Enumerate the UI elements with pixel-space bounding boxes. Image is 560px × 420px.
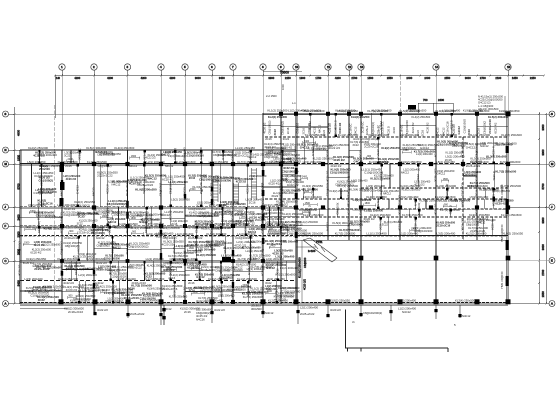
svg-text:2C16: 2C16 [265,137,272,141]
svg-text:L1(2) 200x400: L1(2) 200x400 [267,232,285,236]
svg-text:KL3(4) 250x500: KL3(4) 250x500 [102,210,122,214]
svg-text:6C20 4/2: 6C20 4/2 [495,202,506,206]
svg-text:4C20 2/2: 4C20 2/2 [182,286,186,298]
svg-text:C8@100: C8@100 [303,257,307,268]
svg-text:KL7(3) 250x500: KL7(3) 250x500 [367,109,388,113]
svg-text:KL2(2) 250x600: KL2(2) 250x600 [42,243,61,246]
svg-text:C8@100/2: C8@100/2 [260,241,264,255]
svg-text:KL5(2) 300x600: KL5(2) 300x600 [304,109,325,113]
svg-text:C10@100/200: C10@100/200 [34,174,53,178]
svg-text:2C25+2C22: 2C25+2C22 [235,222,250,226]
svg-text:L5(2) 200x450: L5(2) 200x450 [470,195,489,199]
svg-text:2C25+2C22: 2C25+2C22 [130,312,145,316]
svg-text:C10@10: C10@10 [296,122,300,133]
svg-text:LL1(1) 250x450: LL1(1) 250x450 [209,160,229,164]
svg-text:KL3(4) 250x500: KL3(4) 250x500 [469,109,490,113]
svg-text:6C20 4/2: 6C20 4/2 [30,250,42,254]
svg-text:C8@100(2): C8@100(2) [268,121,272,135]
svg-text:6C20 4/2: 6C20 4/2 [364,217,375,221]
svg-text:2400: 2400 [304,140,310,143]
shear wall segments axis 10 [222,168,297,262]
axis bubble 4 (top) [158,64,164,76]
right dimension line [538,112,540,305]
beam vertical x=297.5 [297,113,299,304]
svg-text:C10@100/: C10@100/ [182,147,186,161]
bottom text block mid [162,304,262,326]
svg-text:3C22: 3C22 [273,129,277,136]
bottom chord gray core [20,303,508,305]
svg-text:2C16: 2C16 [168,276,175,280]
svg-text:2C16: 2C16 [249,200,256,204]
svg-text:6C20 4/2: 6C20 4/2 [214,214,225,217]
svg-text:KL5(2) 300x600: KL5(2) 300x600 [467,184,488,188]
svg-text:2C16: 2C16 [421,129,425,136]
beam vertical x=233 [232,150,234,304]
svg-text:2C18+2C16: 2C18+2C16 [131,281,146,285]
axis bubble 6 (top) [209,64,215,76]
axis bubble 15 (top) [505,64,511,76]
svg-text:N4C12: N4C12 [401,170,410,174]
svg-text:2550: 2550 [444,76,450,80]
svg-text:2C16: 2C16 [171,222,178,226]
grid line level y=236 [20,235,508,237]
beam vertical x=20 [19,150,21,304]
svg-text:3C22: 3C22 [382,223,389,227]
beam horizontal y=260.8 [20,260,296,262]
svg-text:300x500: 300x500 [251,307,262,311]
svg-text:KL1(2) 250x500: KL1(2) 250x500 [470,133,491,137]
svg-text:C8@100/2: C8@100/2 [346,168,350,182]
svg-text:KL7(3) 250x500: KL7(3) 250x500 [500,184,521,188]
svg-text:4C20 2/2: 4C20 2/2 [353,137,364,141]
svg-text:5700: 5700 [541,183,545,189]
beam vertical x=463 [462,137,464,240]
svg-text:N4C12: N4C12 [462,314,471,318]
svg-text:3C22: 3C22 [38,298,45,302]
svg-text:L2(1) 200x400: L2(1) 200x400 [38,153,57,157]
svg-text:L3(3) 200x400: L3(3) 200x400 [303,195,322,199]
svg-text:KL7(3) 250x500: KL7(3) 250x500 [335,232,356,236]
svg-text:L3(3) 200x400: L3(3) 200x400 [362,188,381,192]
svg-text:3300: 3300 [541,149,545,155]
svg-text:2C18+2C: 2C18+2C [361,122,365,133]
svg-text:KL1(2) 250x500: KL1(2) 250x500 [237,277,257,281]
svg-text:KL2(2) 250x600: KL2(2) 250x600 [370,213,391,217]
beam horizontal y=280.5 [20,280,296,282]
grid line axis-296 vertical [295,76,297,305]
svg-text:KL5(2) 300x600: KL5(2) 300x600 [227,288,246,292]
svg-text:LL1(1) 250x450: LL1(1) 250x450 [366,232,387,236]
svg-text:3300: 3300 [267,290,273,293]
stair flight 1 [213,180,218,202]
annotation clusters right block [260,115,517,235]
svg-text:C8@100/200(2): C8@100/200(2) [276,295,294,298]
svg-text:2550: 2550 [387,76,393,80]
svg-text:1650: 1650 [512,76,518,80]
svg-text:4C20 2/2: 4C20 2/2 [263,122,267,133]
svg-text:2C25+2C2: 2C25+2C2 [474,168,478,182]
beam vertical x=281 [280,113,282,304]
svg-text:2-2 1500: 2-2 1500 [266,94,277,98]
bottom long labels [64,306,416,314]
grid line extra x=400 [399,76,401,241]
grid line axis-212 vertical [211,76,213,305]
svg-text:KL9(2) 250x550: KL9(2) 250x550 [135,188,157,192]
svg-text:KL9(2) 250x550: KL9(2) 250x550 [208,277,228,281]
svg-text:L2(1) 200x400: L2(1) 200x400 [57,203,75,207]
beam horizontal y=262.2 [20,261,296,263]
svg-text:900: 900 [68,295,73,298]
svg-text:2C25+2C22: 2C25+2C22 [137,183,153,187]
svg-text:KL1(2) 250x500: KL1(2) 250x500 [435,195,456,199]
svg-text:N: N [4,148,6,152]
bottom edge secondary line [20,307,68,309]
beam vertical x=361 [360,113,362,304]
svg-text:4C22 2/2: 4C22 2/2 [411,122,415,133]
svg-text:2C18+2C1: 2C18+2C1 [460,217,464,231]
svg-text:2400: 2400 [102,151,108,154]
svg-text:4C20 2/2: 4C20 2/2 [330,308,341,312]
svg-text:PTB1: PTB1 [316,240,323,244]
svg-text:900: 900 [167,267,172,270]
svg-text:2C18+2C16: 2C18+2C16 [124,296,140,300]
top-right note block [478,95,505,114]
svg-text:2C18+2C1: 2C18+2C1 [460,143,464,157]
annotation clusters left block [17,147,303,303]
svg-text:C8@100/2: C8@100/2 [260,217,264,231]
svg-text:700: 700 [423,98,428,102]
svg-text:2C25+2C2: 2C25+2C2 [460,182,464,196]
svg-text:C8@100/2: C8@100/2 [59,241,63,255]
svg-text:2C25+2C22: 2C25+2C22 [128,267,142,270]
wall segments on left block verticals [61,180,234,288]
svg-text:E: E [551,259,553,263]
svg-text:4C22 2/2: 4C22 2/2 [97,308,108,312]
svg-text:KL9(2) 250x550: KL9(2) 250x550 [337,109,358,113]
svg-text:L5(2) 200x450: L5(2) 200x450 [400,195,419,199]
svg-text:2700: 2700 [480,76,486,80]
svg-text:2C16: 2C16 [188,281,195,285]
grid line level y=209 [296,208,508,210]
svg-text:C10@100/200: C10@100/200 [140,297,157,300]
svg-text:3300: 3300 [242,284,248,287]
svg-text:C10@100/200: C10@100/200 [188,207,206,211]
svg-text:KL4(2) 250x500: KL4(2) 250x500 [265,160,285,164]
svg-text:KL4(2) 250x500: KL4(2) 250x500 [118,222,138,226]
stair flight 3 [252,168,257,200]
svg-text:3C22: 3C22 [352,143,359,147]
axis bubble A (right) [508,301,555,307]
svg-text:4C22 2/2: 4C22 2/2 [328,123,332,134]
svg-text:G4C12: G4C12 [346,187,350,196]
svg-text:N4C12: N4C12 [265,311,274,315]
svg-text:KL3(4) 250x500: KL3(4) 250x500 [400,184,421,188]
beam vertical x=127.5 [127,150,129,304]
svg-text:KL9(2) 250x550: KL9(2) 250x550 [330,299,350,303]
columns (filled squares) [59,111,511,304]
svg-text:2250: 2250 [530,76,536,80]
svg-text:G4C12: G4C12 [213,207,222,211]
axis bubble 8 (top) [260,64,266,76]
svg-text:2C25+2C22: 2C25+2C22 [300,312,315,316]
svg-text:N4C12: N4C12 [477,222,485,225]
beam horizontal y=150 [20,149,296,151]
axis bubble J (right) [508,204,555,210]
svg-text:L3(3) 200x400: L3(3) 200x400 [25,277,43,281]
grid line axis-436 vertical [435,76,437,305]
grid line axis-328 vertical [327,76,329,241]
axis bubble 9 (top) [278,64,284,76]
svg-text:L3(3) 200x400: L3(3) 200x400 [437,232,456,236]
secondary beams left block [20,150,296,304]
svg-text:L2(1) 200x400: L2(1) 200x400 [177,257,195,261]
svg-text:3000: 3000 [541,124,545,130]
svg-text:KL9(2) 250x550: KL9(2) 250x550 [499,109,520,113]
labels above top beam [268,109,484,113]
svg-text:2C18+2C16: 2C18+2C16 [436,223,450,227]
beam vertical x=506.8 [506,113,508,304]
beam vertical x=62 [61,150,63,304]
svg-text:L1(2) 200x400: L1(2) 200x400 [280,266,299,270]
svg-text:KL5(2) 300x600: KL5(2) 300x600 [242,246,261,250]
left dimension numbers [17,130,21,287]
svg-text:2700: 2700 [244,76,250,80]
svg-text:KL3(4) 250x500: KL3(4) 250x500 [455,299,475,303]
svg-text:KL5(2) 300x600: KL5(2) 300x600 [206,232,226,236]
svg-text:KL7(3) 250x500: KL7(3) 250x500 [237,160,257,164]
left dimension line [13,107,15,305]
grid line axis-185 vertical [184,76,186,305]
svg-text:1800: 1800 [102,215,108,218]
hanging sections below bottom chord [93,305,461,325]
svg-text:KL5(2) 300x600: KL5(2) 300x600 [266,146,286,150]
grid line axis-349 vertical [348,76,350,241]
svg-text:2700: 2700 [541,269,545,275]
svg-text:KL12(1) 250x500: KL12(1) 250x500 [298,257,302,278]
svg-text:2400: 2400 [406,76,412,80]
svg-text:KL4(2) 250x500: KL4(2) 250x500 [305,133,326,137]
svg-text:KL5(2) 300x600: KL5(2) 300x600 [500,160,521,164]
svg-text:G4C12: G4C12 [457,126,461,135]
svg-text:C8@100(2): C8@100(2) [364,137,378,141]
svg-text:N4C12: N4C12 [59,187,63,196]
svg-text:2250: 2250 [285,76,291,80]
svg-text:4C20 2/2: 4C20 2/2 [303,279,307,290]
top dimension line [54,74,545,118]
svg-text:1800: 1800 [241,215,247,218]
axis bubble 5 (top) [182,64,188,76]
svg-text:KL7(3) 250x500: KL7(3) 250x500 [238,257,258,261]
svg-text:2C25+2C22: 2C25+2C22 [97,173,113,177]
beam horizontal y=199 [265,198,508,200]
svg-text:KL4(2) 250x500: KL4(2) 250x500 [412,115,431,119]
svg-text:3C22: 3C22 [397,208,401,215]
open area right edge gray core [507,113,509,304]
svg-text:1800: 1800 [131,217,137,220]
svg-text:2C16: 2C16 [189,176,196,180]
svg-text:L2(1) 200x400: L2(1) 200x400 [303,160,322,164]
grid line axis-62 vertical [61,76,63,305]
svg-text:KL3(4) 250x500: KL3(4) 250x500 [58,277,78,281]
svg-text:L5(2) 200x450: L5(2) 200x450 [28,203,46,207]
svg-text:3300: 3300 [268,150,274,153]
svg-text:C10@100/200: C10@100/200 [33,191,52,195]
svg-text:4C20 2/2: 4C20 2/2 [272,252,284,256]
svg-text:KL9(2) 250x550: KL9(2) 250x550 [401,160,422,164]
svg-text:h=100: h=100 [308,249,316,253]
svg-text:3C22: 3C22 [283,137,290,141]
svg-text:2C25+2C22: 2C25+2C22 [364,145,379,149]
top mid annotation [266,84,296,105]
svg-text:G4C12: G4C12 [233,266,242,270]
shear wall segments axis 8 [262,170,265,244]
svg-text:6C20 4/2: 6C20 4/2 [260,264,264,276]
top-right sub dimension 700/2400 [408,98,453,113]
beam horizontal y=305 [20,304,508,306]
svg-text:KL7(3) 250x500: KL7(3) 250x500 [337,184,358,188]
svg-text:4200: 4200 [107,76,113,80]
svg-text:KL9(2) 250x550: KL9(2) 250x550 [264,203,284,207]
bottom section polyline [346,310,449,353]
svg-text:4200: 4200 [335,76,341,80]
svg-text:N4C12: N4C12 [325,222,329,231]
svg-text:C8@100(2): C8@100(2) [65,244,79,248]
svg-text:KL2(2) 250x600: KL2(2) 250x600 [374,173,394,177]
grid line level y=164 [20,163,549,165]
svg-text:C10@100/: C10@100/ [358,217,362,231]
svg-text:KL9(2) 250x550: KL9(2) 250x550 [419,199,440,203]
bottom small label 5 [352,320,456,327]
beam vertical x=508.4 [507,113,509,304]
svg-text:3300: 3300 [541,217,545,223]
svg-text:KL9(2) 250x550: KL9(2) 250x550 [469,213,490,217]
open area left edge strip [296,240,316,303]
svg-text:G4C12: G4C12 [354,159,363,163]
svg-text:3C22: 3C22 [358,150,362,157]
svg-text:4C20 2/2: 4C20 2/2 [66,177,77,181]
beam horizontal y=225.8 [20,225,296,227]
svg-text:C8@100(2: C8@100(2 [474,143,478,157]
svg-text:3000: 3000 [465,76,471,80]
axis bubble E (right) [508,258,555,264]
svg-text:4C20 2/2: 4C20 2/2 [433,145,437,157]
svg-text:10: 10 [295,65,299,69]
svg-text:L5(2) 200x450: L5(2) 200x450 [436,160,455,164]
dense strip first bay [38,164,65,206]
svg-text:2400: 2400 [270,245,276,248]
svg-text:C8@100/2: C8@100/2 [158,182,162,196]
svg-text:4900: 4900 [17,130,21,136]
svg-text:L1(2) 200x400: L1(2) 200x400 [400,232,419,236]
svg-text:KL9(2) 250x550: KL9(2) 250x550 [26,257,46,261]
svg-text:4C22 2/2: 4C22 2/2 [433,203,437,215]
svg-text:KL3(4) 250x500: KL3(4) 250x500 [114,146,134,150]
svg-text:L-1: L-1 [292,101,296,105]
beam horizontal y=163.5 [20,163,296,165]
axis bubble S (right) [508,111,555,117]
svg-text:1500: 1500 [24,242,30,245]
svg-text:KL1(2) 250x500: KL1(2) 250x500 [107,268,127,272]
svg-text:4C20 2/2: 4C20 2/2 [66,288,78,292]
grid line level y=150 [20,149,296,151]
svg-text:KL2(2) 250x600: KL2(2) 250x600 [368,133,389,137]
svg-text:L2(1) 200x400: L2(1) 200x400 [147,160,165,164]
svg-text:3C22: 3C22 [125,226,129,233]
axis bubble C (left) [3,258,21,264]
svg-text:C8@100(2): C8@100(2) [91,231,105,235]
svg-text:C10@100/200: C10@100/200 [330,171,348,175]
svg-text:4C22 2/2: 4C22 2/2 [59,222,63,234]
svg-text:4200: 4200 [169,76,175,80]
svg-text:4C20 2/2: 4C20 2/2 [293,145,297,157]
svg-text:KL1(2) 250x500: KL1(2) 250x500 [268,109,288,113]
svg-text:KL9(2) 250x550: KL9(2) 250x550 [503,232,524,236]
svg-text:2C18+2C16: 2C18+2C16 [68,310,83,314]
svg-text:4C22 2/2: 4C22 2/2 [236,180,247,184]
svg-text:900: 900 [132,230,137,233]
svg-text:KL7(3) 250x500: KL7(3) 250x500 [414,150,435,154]
right dimension numbers [541,124,545,297]
axis bubble 13 (top) [358,64,364,76]
svg-text:1800: 1800 [443,178,449,181]
svg-text:4C20 2/2: 4C20 2/2 [425,122,429,133]
svg-text:KL9(2) 250x550: KL9(2) 250x550 [381,146,400,150]
svg-text:KL3(4) 250x500: KL3(4) 250x500 [303,232,324,236]
beam horizontal y=208.3 [20,207,296,209]
svg-text:2C25+2C22: 2C25+2C22 [466,164,481,168]
svg-text:13: 13 [360,65,364,69]
svg-text:140: 140 [56,77,61,80]
axis bubble 10 (top) [293,64,299,76]
beam vertical x=400 [399,113,401,240]
svg-text:KL3(4) 250x500: KL3(4) 250x500 [369,160,390,164]
grid line level y=207 [20,206,296,208]
hanging annotation texts [97,307,471,318]
beam horizontal y=163.5 [296,163,508,165]
svg-text:2100: 2100 [495,76,501,80]
svg-text:2C18+2C1: 2C18+2C1 [260,182,264,196]
right outer dimension line [545,113,547,305]
grid line extra x=54 [53,105,55,304]
svg-text:900: 900 [69,230,74,233]
beam vertical x=161 [160,150,162,312]
grid line axis-94 vertical [93,76,95,305]
svg-text:2C18+2C16: 2C18+2C16 [201,268,215,272]
svg-text:N4C12: N4C12 [165,164,174,168]
svg-text:KL2(2) 250x600: KL2(2) 250x600 [176,160,196,164]
svg-text:C8@100(2): C8@100(2) [39,179,53,183]
axis bubble M (left) [3,161,21,167]
svg-text:KL2(2) 250x600: KL2(2) 250x600 [436,184,457,188]
axis bubble 3 (top) [124,64,130,76]
svg-text:C8@100/200(2): C8@100/200(2) [163,261,182,265]
grid line extra x=463 [462,137,464,240]
svg-text:KL4(2) 250x500: KL4(2) 250x500 [223,208,244,212]
svg-text:12: 12 [348,65,352,69]
svg-text:6C20 4/2: 6C20 4/2 [64,207,75,211]
svg-text:L3(3) 200x400: L3(3) 200x400 [77,267,95,271]
svg-text:2400: 2400 [302,176,308,179]
svg-text:C8@100/200: C8@100/200 [282,169,299,173]
svg-text:L3(3) 200x400: L3(3) 200x400 [398,299,416,303]
beam horizontal y=235.5 [296,235,508,237]
svg-text:L1(2) 200x400: L1(2) 200x400 [470,160,489,164]
svg-text:KL9(2) 250x550: KL9(2) 250x550 [41,164,62,168]
svg-text:4200: 4200 [141,76,147,80]
beam vertical x=436 [435,113,437,304]
svg-text:2C18+2C16: 2C18+2C16 [64,236,79,240]
svg-text:KL3(4) 250x500: KL3(4) 250x500 [142,291,163,295]
